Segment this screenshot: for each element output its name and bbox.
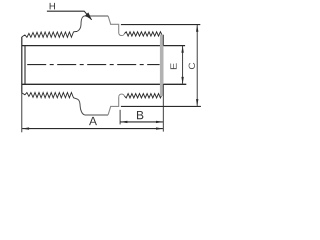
dim B line xyxy=(121,121,163,123)
dim C line xyxy=(196,25,198,106)
thread runout cup bottom xyxy=(119,94,125,97)
thread runout cup top xyxy=(119,33,125,36)
H leader arrowhead xyxy=(85,12,92,20)
left extension line for A xyxy=(21,93,23,132)
thread left top (zigzag) xyxy=(22,32,77,38)
dim E line xyxy=(182,46,184,84)
H label xyxy=(50,3,55,10)
hex top face xyxy=(85,15,108,17)
hex left transition top xyxy=(77,16,85,32)
dim C top extension xyxy=(121,24,200,26)
left end face xyxy=(21,37,23,93)
label E (rotated) xyxy=(170,63,176,69)
dim B right arrow xyxy=(156,121,163,123)
label A xyxy=(89,117,97,125)
bore chamfer line left xyxy=(24,46,26,85)
dim E bottom arrow xyxy=(181,77,183,84)
hex left transition bottom xyxy=(76,98,85,114)
hex bottom face xyxy=(85,114,109,116)
dim C top arrow xyxy=(196,25,198,32)
H leader line xyxy=(47,11,92,20)
hex right steps bottom xyxy=(108,97,119,115)
end face top edge xyxy=(162,35,164,46)
pipe bottom line xyxy=(22,83,187,85)
dim A line xyxy=(22,128,163,130)
thread right top (fine zigzag) xyxy=(125,32,162,36)
label C (rotated) xyxy=(189,63,195,69)
B left extension line xyxy=(119,110,121,125)
thread left bottom (zigzag) xyxy=(22,93,76,99)
right extension line for A and B xyxy=(162,96,164,132)
hex right steps top xyxy=(108,16,119,33)
dim C bottom arrow xyxy=(196,99,198,106)
dim A left arrow xyxy=(22,127,29,129)
thread right bottom (fine zigzag) xyxy=(125,94,162,98)
dim E top arrow xyxy=(181,46,183,53)
end face bottom edge xyxy=(162,84,164,95)
label B xyxy=(137,111,143,119)
dim A right arrow xyxy=(156,127,163,129)
dim C bottom extension xyxy=(121,105,201,107)
end gasket bar xyxy=(160,35,164,97)
centerline xyxy=(27,64,159,66)
pipe top line xyxy=(22,45,185,47)
dim B left arrow xyxy=(120,121,127,123)
